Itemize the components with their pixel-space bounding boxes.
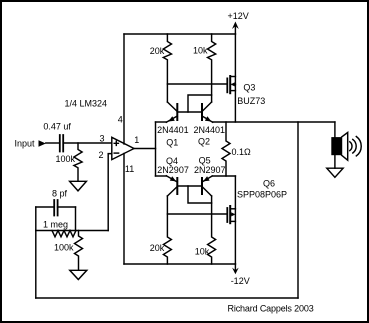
- wire Q3 drain-source vertical: [234, 34, 236, 122]
- ground speaker: [327, 168, 343, 177]
- svg-text:+12V: +12V: [228, 11, 249, 21]
- resistor 0.1 ohm: [222, 122, 230, 176]
- mosfet Q3: [227, 76, 235, 93]
- svg-text:10k: 10k: [193, 46, 208, 56]
- resistor 20k top: [163, 34, 171, 102]
- svg-text:2N4401: 2N4401: [157, 125, 189, 135]
- speaker waves: [350, 137, 361, 156]
- svg-text:1: 1: [134, 135, 139, 145]
- wire 1meg to pin2 vertical: [52, 230, 108, 232]
- transistor Q1: [166, 102, 177, 122]
- svg-text:Q6: Q6: [263, 179, 275, 189]
- svg-text:-12V: -12V: [231, 276, 250, 286]
- wire 8pf right vertical: [75, 207, 77, 231]
- svg-text:Q5: Q5: [199, 156, 211, 166]
- svg-text:3: 3: [100, 134, 105, 144]
- wire input to capacitor: [46, 142, 60, 144]
- resistor 10k bottom: [208, 196, 216, 264]
- svg-text:0.1Ω: 0.1Ω: [232, 147, 252, 157]
- wire Q3 gate: [167, 83, 227, 85]
- top rail wire: [124, 33, 235, 35]
- mosfet Q6: [227, 206, 235, 223]
- svg-text:0.47 uf: 0.47 uf: [43, 121, 71, 131]
- capacitor C2 8pf leads: [36, 206, 76, 208]
- svg-text:11: 11: [125, 164, 134, 174]
- svg-text:2: 2: [99, 150, 104, 160]
- svg-text:20k: 20k: [150, 243, 165, 253]
- transistor Q5: [202, 176, 212, 196]
- transistor Q2: [202, 102, 213, 122]
- resistor 20k bottom: [163, 196, 171, 264]
- wire pin 3 input: [63, 142, 112, 144]
- svg-text:1/4 LM324: 1/4 LM324: [65, 99, 108, 109]
- svg-text:Richard Cappels 2003: Richard Cappels 2003: [228, 304, 314, 314]
- speaker cone: [342, 133, 348, 161]
- svg-text:Q1: Q1: [166, 138, 178, 148]
- svg-text:Q2: Q2: [198, 137, 210, 147]
- svg-text:Q3: Q3: [243, 82, 255, 92]
- +12V supply arrow: [234, 25, 236, 34]
- wire feedback left vertical: [35, 231, 37, 299]
- wire bracket Q5 base-collector: [188, 186, 212, 203]
- wire speaker drop: [334, 122, 336, 137]
- wire feedback bottom: [36, 297, 298, 299]
- svg-text:Input: Input: [15, 139, 36, 149]
- svg-text:2N4401: 2N4401: [194, 125, 226, 135]
- input arrow: [39, 140, 46, 146]
- resistor 100k bottom: [75, 231, 83, 271]
- pin 4 supply wire: [123, 34, 125, 144]
- wire pin 2: [108, 154, 112, 231]
- wire Q5 emitter to 0.1ohm node: [212, 175, 235, 177]
- resistor 10k top: [208, 34, 216, 102]
- wire output node vertical: [155, 122, 157, 176]
- wire op-amp output: [134, 148, 156, 150]
- capacitor C1 0.47uf plates: [60, 135, 63, 152]
- svg-text:20k: 20k: [150, 46, 165, 56]
- wire Q6 gate: [167, 213, 227, 215]
- svg-text:2N2907: 2N2907: [194, 165, 226, 175]
- ground input: [70, 181, 87, 191]
- -12V supply arrow: [234, 264, 236, 271]
- transistor Q4: [166, 176, 177, 196]
- ground bottom: [70, 270, 87, 279]
- pin 11 wire: [123, 154, 125, 265]
- wire feedback right vertical: [297, 122, 299, 298]
- bottom rail wire: [124, 263, 235, 265]
- svg-text:8 pf: 8 pf: [52, 189, 68, 199]
- op-amp U1: [112, 137, 134, 159]
- wire bracket Q2 base-collector: [188, 95, 212, 112]
- wire Q6 vertical: [234, 176, 236, 264]
- feedback network: wire left vertical: [35, 207, 37, 231]
- wire speaker to ground: [334, 155, 336, 168]
- svg-text:BUZ73: BUZ73: [237, 96, 265, 106]
- wire output line: [213, 121, 335, 123]
- capacitor C2 8pf plates: [54, 200, 57, 216]
- svg-text:4: 4: [118, 114, 123, 124]
- resistor 100k input: [74, 143, 82, 181]
- wire base rail Q1 Q2: [177, 111, 202, 113]
- svg-text:100k: 100k: [56, 154, 76, 164]
- op-amp plus input mark: [114, 141, 118, 145]
- svg-text:100k: 100k: [54, 242, 74, 252]
- svg-text:1 meg: 1 meg: [43, 219, 68, 229]
- svg-text:10k: 10k: [195, 247, 210, 257]
- wire Q4 emitter: [156, 175, 167, 177]
- resistor 1 meg: [36, 231, 76, 237]
- speaker driver: [331, 137, 341, 155]
- wire Q1 emitter to output node: [156, 121, 167, 123]
- op-amp minus input mark: [114, 152, 118, 154]
- svg-text:SPP08P06P: SPP08P06P: [237, 190, 287, 200]
- svg-text:2N2907: 2N2907: [157, 165, 189, 175]
- wire base rail Q4 Q5: [177, 185, 202, 187]
